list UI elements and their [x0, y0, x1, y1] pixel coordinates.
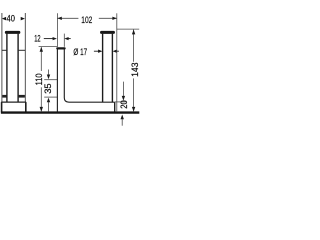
side view: left extension line above arm: [56, 13, 58, 47]
dimension 35: lower tail line: [48, 102, 50, 111]
dimension 102: dimension line left segment: [57, 17, 78, 19]
svg-text:143: 143: [130, 62, 140, 76]
svg-text:Ø 17: Ø 17: [73, 47, 87, 58]
svg-text:102: 102: [81, 15, 92, 26]
svg-text:20: 20: [119, 100, 130, 109]
side view: base right edge: [114, 102, 116, 112]
dimension 143: bottom arrow: [132, 107, 135, 112]
side view: arm top cap: [56, 47, 65, 49]
front view: back plate top edge right segment: [18, 49, 25, 51]
ground/base bottom line: [1, 111, 139, 113]
side view: rod top cap: [100, 31, 115, 34]
dimension 40: left arrow: [2, 17, 6, 21]
svg-text:12: 12: [34, 34, 40, 45]
dimension 12: right arrow (points left): [64, 37, 68, 40]
dimension 35: upper tail line: [48, 70, 50, 75]
dimension 143: top arrow: [132, 30, 135, 35]
dimension 35: upper arrow (points down): [47, 75, 50, 80]
dimension 110: dimension line upper segment: [40, 47, 42, 71]
dimension 40: right arrow: [21, 17, 25, 21]
svg-text:35: 35: [43, 83, 54, 93]
dimension 110: top extension line: [39, 45, 57, 47]
dimension 102: dimension line right segment: [99, 17, 117, 19]
side view: arm left edge down to ground: [56, 49, 58, 111]
dimension Ø17: left arrow (points right): [94, 50, 99, 52]
dimension 35: lower arrow (points up): [47, 98, 50, 103]
dimension 102: right arrow: [112, 17, 116, 20]
dimension 110: dimension line lower segment: [40, 87, 42, 111]
dimension 12: right extension line: [63, 34, 65, 47]
side view: right extension line: [116, 13, 118, 111]
dimension 20: upper arrow (points down): [122, 96, 125, 101]
front view: rod right edge: [17, 34, 19, 103]
dimension 143: top extension line: [117, 28, 139, 30]
dimension 143: dimension line upper segment: [133, 30, 135, 62]
front view: rod left edge: [6, 34, 8, 103]
side view: arm right edge with arc into base top: [64, 49, 114, 102]
front view: base right edge: [25, 102, 27, 112]
dimension Ø17: right arrow (points left): [113, 50, 117, 53]
dimension 110: bottom arrow: [40, 107, 43, 112]
dimension 20: lower arrow (points up): [121, 115, 124, 120]
front view: back plate top edge left segment: [2, 49, 7, 51]
dimension 20: lower tail line: [121, 119, 123, 126]
front view: base top edge: [1, 101, 26, 103]
dimension 35: lower extension line: [44, 96, 57, 98]
dimension 12: left arrow (points right): [44, 38, 53, 40]
dimension 143: dimension line lower segment: [133, 78, 135, 111]
dimension 35: upper extension line: [44, 79, 57, 81]
svg-text:40: 40: [7, 13, 15, 24]
dimension 20: upper tail line: [122, 82, 124, 97]
dimension 102: left arrow: [58, 17, 62, 20]
front view: left slot shadow bar: [2, 95, 6, 98]
dimension 20: top extension line: [115, 101, 126, 103]
front view: right extension/edge line: [24, 13, 26, 102]
front view: rod top cap: [5, 31, 20, 34]
side view: rod right edge: [111, 34, 113, 103]
front view: right slot shadow bar: [19, 95, 25, 98]
side view: rod left edge: [102, 34, 104, 103]
dimension 110: top arrow: [40, 47, 43, 52]
front view: left extension/edge line: [1, 13, 3, 102]
front view: base left edge: [1, 102, 3, 112]
